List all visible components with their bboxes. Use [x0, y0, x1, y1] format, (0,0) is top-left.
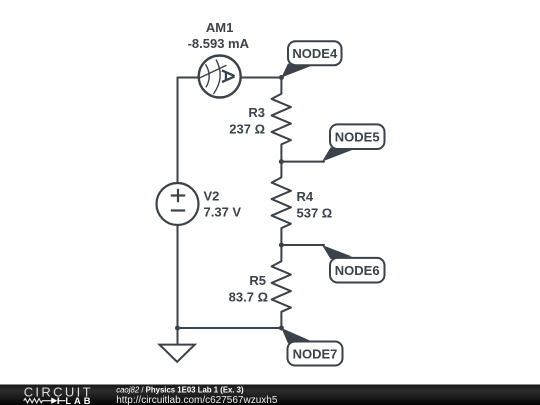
- svg-text:V2: V2: [204, 189, 220, 204]
- svg-text:R3: R3: [248, 105, 265, 120]
- junction dot at ground: [175, 326, 180, 331]
- svg-text:7.37 V: 7.37 V: [204, 205, 242, 220]
- junction dot node7: [279, 326, 284, 331]
- ammeter AM1: [199, 56, 241, 98]
- svg-text:NODE5: NODE5: [335, 130, 380, 145]
- resistor R3: [272, 94, 291, 145]
- svg-text:-8.593 mA: -8.593 mA: [188, 36, 250, 51]
- wire: [178, 327, 282, 329]
- CircuitLab logo wordmark: [24, 384, 94, 405]
- svg-text:caoj82 / Physics 1E03 Lab 1 (E: caoj82 / Physics 1E03 Lab 1 (Ex. 3): [116, 385, 244, 394]
- junction dot node4: [279, 75, 284, 80]
- node NODE7: [281, 328, 342, 366]
- label R3 value: [229, 105, 265, 137]
- svg-text:LAB: LAB: [65, 395, 93, 405]
- label AM1 meter letter: [222, 70, 235, 82]
- wire: [281, 244, 324, 246]
- label AM1 value: [188, 20, 250, 51]
- svg-text:AM1: AM1: [206, 20, 233, 35]
- label R4 value: [297, 189, 333, 221]
- wire: [280, 144, 282, 161]
- voltage source V2: [157, 183, 199, 225]
- label V2 value: [204, 189, 242, 220]
- resistor R5: [272, 261, 291, 312]
- svg-text:NODE6: NODE6: [335, 263, 380, 278]
- svg-text:537 Ω: 537 Ω: [297, 206, 333, 221]
- svg-text:http://circuitlab.com/c627567w: http://circuitlab.com/c627567wzuxh5: [116, 395, 278, 405]
- node NODE4: [281, 41, 341, 77]
- junction dot node5: [279, 159, 284, 164]
- svg-text:R4: R4: [297, 189, 314, 204]
- wire: [280, 245, 282, 261]
- svg-text:NODE4: NODE4: [292, 46, 338, 61]
- wire: [178, 78, 199, 184]
- CircuitLab logo resistor: [24, 399, 52, 403]
- svg-text:83.7 Ω: 83.7 Ω: [229, 290, 268, 305]
- wire: [177, 225, 179, 328]
- node NODE5: [322, 124, 385, 161]
- svg-text:237 Ω: 237 Ω: [229, 122, 265, 137]
- CircuitLab logo diode: [51, 398, 65, 404]
- wire: [280, 78, 282, 94]
- svg-text:R5: R5: [249, 273, 266, 288]
- wire: [280, 162, 282, 178]
- node NODE6: [322, 245, 385, 283]
- svg-text:NODE7: NODE7: [293, 347, 338, 362]
- wire: [280, 228, 282, 245]
- label R5 value: [229, 273, 268, 305]
- wire: [280, 312, 282, 328]
- resistor R4: [272, 177, 291, 228]
- wire: [281, 161, 324, 163]
- wire: [241, 77, 282, 79]
- junction dot node6: [279, 243, 284, 248]
- ground: [160, 328, 195, 362]
